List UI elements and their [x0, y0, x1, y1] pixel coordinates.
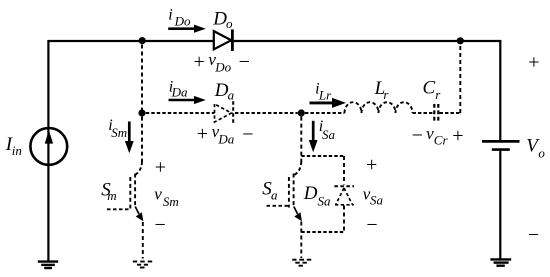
wire right vertical output rail upper: [499, 40, 501, 140]
label - v_Cr +: [412, 124, 464, 147]
svg-text:−: −: [366, 214, 377, 236]
label v_Sa: [363, 185, 384, 208]
wire dashed node C down to switch Sa: [300, 117, 302, 162]
svg-text:Sa: Sa: [322, 127, 336, 142]
svg-text:C: C: [423, 78, 436, 99]
svg-text:Da: Da: [171, 84, 188, 99]
svg-text:Sa: Sa: [370, 193, 384, 208]
label S_m: [101, 180, 116, 203]
svg-text:Cr: Cr: [434, 133, 449, 148]
svg-text:+: +: [194, 51, 205, 73]
current source arrow head: [45, 130, 53, 143]
svg-text:+: +: [452, 125, 463, 147]
label S_a: [262, 179, 278, 203]
capacitor/source Vo top plate: [482, 140, 520, 143]
svg-text:Do: Do: [174, 14, 191, 29]
switch Sm gate lead from Sm label: [107, 208, 130, 210]
label i_Da: [169, 79, 188, 100]
label + v_Do -: [194, 50, 250, 74]
wire dashed Lr to Cr: [413, 112, 434, 114]
label I_in: [5, 134, 22, 158]
wire dashed auxiliary bus segment 2: [235, 112, 298, 114]
node D junction (top bus / Cr branch): [457, 37, 464, 44]
wire dashed Sa to ground: [300, 222, 302, 259]
wire top bus right segment: [232, 40, 501, 42]
wire dashed Sm to ground: [142, 222, 144, 259]
svg-text:+: +: [528, 52, 539, 74]
svg-text:a: a: [271, 188, 278, 203]
svg-text:−: −: [239, 51, 250, 73]
node A junction (top bus / auxiliary branch): [139, 37, 146, 44]
ground (Sa, dashed): [292, 260, 311, 266]
label i_Sm: [108, 117, 127, 140]
svg-text:−: −: [528, 224, 539, 246]
label V_o: [526, 135, 545, 160]
wire dashed riser up to node D: [459, 45, 461, 114]
ground (Sm, dashed): [133, 262, 152, 268]
wire dashed Cr to riser: [440, 112, 461, 114]
svg-text:in: in: [12, 143, 22, 158]
capacitor Cr right plate (dashed): [437, 104, 439, 122]
svg-text:Do: Do: [214, 59, 231, 74]
svg-text:Lr: Lr: [318, 88, 332, 103]
diode Da cathode bar (dashed): [232, 101, 234, 124]
svg-text:−: −: [242, 123, 253, 145]
switch Sa gate bar left: [288, 177, 290, 208]
arrow i_Da: [169, 96, 206, 104]
wire dashed DSa branch right upper: [343, 156, 345, 185]
label C_r: [423, 78, 442, 102]
diode Do cathode bar: [231, 29, 234, 51]
wire right vertical output rail lower: [499, 151, 501, 260]
switch Sm top hook curve: [135, 162, 142, 175]
diode Da triangle (dashed): [215, 104, 232, 122]
diode DSa triangle (dashed, pointing up): [335, 188, 354, 205]
switch Sm gate bar left: [129, 177, 131, 209]
label D_o: [212, 8, 233, 31]
svg-text:−: −: [412, 125, 423, 147]
diode Do triangle: [214, 31, 231, 49]
svg-text:o: o: [538, 146, 545, 161]
label i_Lr: [315, 80, 332, 102]
svg-text:Sm: Sm: [111, 125, 127, 140]
wire dashed auxiliary bus segment 1: [146, 112, 215, 114]
svg-text:o: o: [226, 16, 233, 31]
label + v_Da -: [197, 122, 254, 146]
svg-text:v: v: [154, 185, 162, 204]
svg-text:−: −: [155, 214, 166, 236]
label i_Do: [168, 7, 191, 29]
wire dashed DSa branch right lower: [343, 206, 345, 233]
svg-text:+: +: [155, 157, 166, 179]
svg-text:r: r: [383, 87, 389, 102]
svg-text:r: r: [435, 87, 441, 102]
svg-text:a: a: [228, 88, 235, 103]
svg-text:D: D: [214, 80, 229, 101]
svg-text:Da: Da: [217, 131, 234, 146]
label D_Sa: [303, 183, 331, 209]
wire left vertical input rail: [47, 40, 49, 262]
svg-text:i: i: [168, 7, 172, 24]
switch Sm arrow to lower terminal: [135, 207, 143, 222]
svg-text:D: D: [303, 183, 318, 204]
switch Sa top hook curve: [295, 162, 302, 175]
svg-text:D: D: [212, 8, 227, 29]
capacitor/source Vo bottom plate: [492, 148, 510, 151]
svg-text:m: m: [107, 188, 116, 203]
diode DSa cathode bar (dashed): [334, 185, 354, 187]
svg-text:Sa: Sa: [318, 193, 332, 208]
node C junction (auxiliary bus / Sa branch): [298, 109, 305, 116]
arrow i_Do: [168, 25, 206, 33]
arrow i_Sm (down): [125, 122, 134, 154]
ground (output, solid): [490, 259, 511, 265]
label v_Sm: [154, 185, 179, 209]
svg-text:Sm: Sm: [163, 194, 179, 209]
wire dashed DSa branch top: [301, 155, 344, 157]
wire dashed vertical from node A down to node B: [141, 45, 143, 111]
arrow i_Lr: [310, 98, 347, 108]
switch Sa blade bar right: [293, 174, 295, 208]
inductor Lr (dashed coil): [345, 102, 413, 113]
switch Sm blade bar right: [134, 174, 136, 208]
wire dashed auxiliary bus segment 3: [305, 112, 345, 114]
switch Sa gate lead from Sa label: [267, 205, 289, 207]
wire dashed DSa branch bottom: [301, 231, 344, 233]
label L_r: [374, 78, 390, 102]
label D_a: [214, 80, 235, 103]
node B junction (auxiliary bus left): [138, 109, 145, 116]
wire top bus left segment: [48, 40, 214, 42]
wire dashed node B down to switch Sm: [141, 117, 143, 162]
current source I_in circle: [30, 128, 67, 165]
label i_Sa: [319, 118, 336, 142]
switch Sa arrow to lower terminal: [294, 207, 302, 222]
capacitor Cr left plate (dashed): [433, 104, 435, 122]
svg-text:+: +: [366, 154, 377, 176]
arrow i_Sa (down): [309, 121, 318, 153]
ground (input, solid): [38, 262, 58, 268]
svg-text:+: +: [197, 123, 208, 145]
